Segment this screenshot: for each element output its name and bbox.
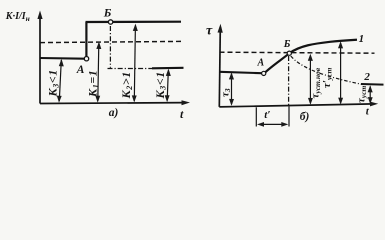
svg-text:К3<1: К3<1 — [153, 71, 168, 99]
svg-text:2: 2 — [363, 71, 370, 83]
svg-text:Б: Б — [103, 5, 112, 19]
svg-text:t: t — [180, 107, 184, 121]
svg-text:Б: Б — [283, 39, 291, 50]
svg-text:К3<1: К3<1 — [46, 69, 61, 97]
svg-text:τ′уст: τ′уст — [321, 67, 334, 88]
svg-text:б): б) — [300, 111, 310, 123]
svg-text:t′: t′ — [264, 109, 270, 121]
svg-text:1: 1 — [359, 33, 365, 45]
svg-text:А: А — [76, 64, 85, 76]
svg-text:К1=1: К1=1 — [86, 70, 101, 98]
svg-text:τ3: τ3 — [220, 88, 233, 97]
svg-text:t: t — [366, 105, 370, 117]
svg-text:К2>1: К2>1 — [119, 71, 134, 99]
svg-text:τуст: τуст — [356, 85, 369, 103]
svg-text:а): а) — [109, 107, 119, 119]
svg-text:А: А — [257, 58, 265, 69]
svg-text:τ: τ — [206, 24, 213, 39]
svg-text:К·I/Iн: К·I/Iн — [5, 11, 30, 23]
